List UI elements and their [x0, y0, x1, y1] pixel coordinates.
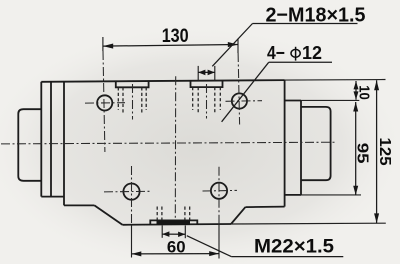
svg-text:12: 12	[302, 42, 322, 63]
svg-text:4−: 4−	[267, 42, 285, 63]
svg-text:2−M18×1.5: 2−M18×1.5	[266, 4, 366, 27]
svg-text:125: 125	[376, 138, 393, 166]
svg-text:60: 60	[167, 237, 186, 256]
svg-text:M22×1.5: M22×1.5	[254, 236, 334, 257]
svg-text:95: 95	[353, 143, 370, 164]
svg-text:130: 130	[162, 25, 189, 47]
svg-text:10: 10	[356, 85, 372, 100]
